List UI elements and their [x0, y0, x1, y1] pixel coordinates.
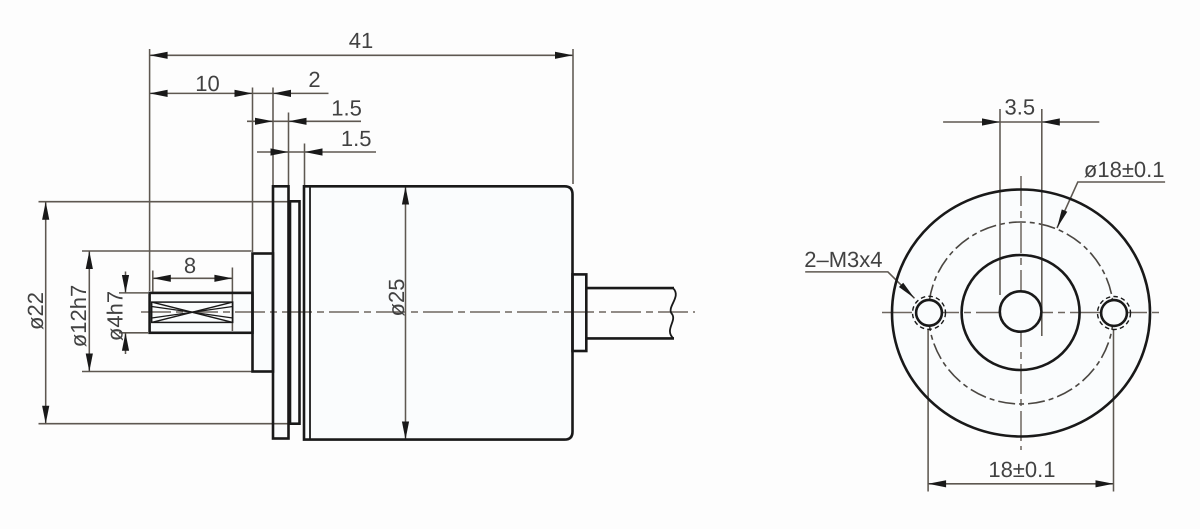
svg-text:1.5: 1.5	[331, 96, 362, 121]
svg-text:ø25: ø25	[384, 279, 409, 317]
svg-text:18±0.1: 18±0.1	[988, 457, 1055, 482]
svg-text:2: 2	[308, 67, 320, 92]
svg-text:ø12h7: ø12h7	[66, 285, 91, 347]
svg-text:ø4h7: ø4h7	[103, 291, 128, 341]
svg-text:8: 8	[184, 253, 196, 278]
svg-text:ø22: ø22	[23, 292, 48, 330]
svg-text:41: 41	[349, 28, 373, 53]
svg-text:ø18±0.1: ø18±0.1	[1084, 157, 1165, 182]
svg-text:10: 10	[195, 71, 219, 96]
svg-text:2–M3x4: 2–M3x4	[804, 247, 882, 272]
svg-text:3.5: 3.5	[1005, 95, 1036, 120]
svg-text:1.5: 1.5	[341, 126, 372, 151]
